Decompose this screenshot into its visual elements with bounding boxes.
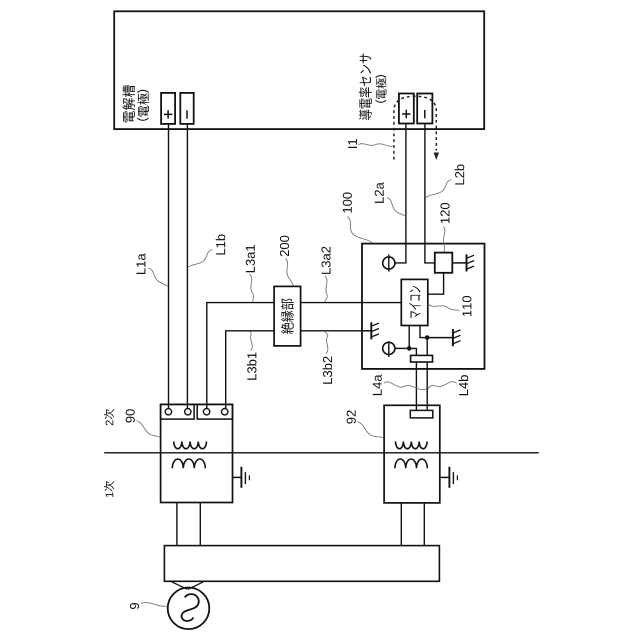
wire 120 to microcontroller [428, 273, 444, 294]
AC source circle 9 [168, 588, 210, 630]
transformer 90 box [161, 404, 233, 502]
leader L3b2 [325, 332, 328, 354]
tank label 電解槽 column [122, 85, 135, 122]
source circle (top, sensor drive) [383, 257, 395, 269]
sensor label 導電率センサ column [359, 54, 372, 120]
terminal block A of 90 [161, 404, 195, 419]
terminal block B of 90 [197, 404, 232, 419]
label 1次 (primary) [104, 481, 114, 497]
terminal circle 1 of 90 [165, 409, 171, 415]
label L4a [373, 374, 382, 395]
leader L3b1 [250, 332, 253, 351]
terminal circle 3 of 90 [203, 409, 209, 415]
leader L2b [426, 180, 452, 198]
wire microcontroller to node B [420, 326, 427, 338]
terminal block of 92 [410, 410, 433, 418]
label L2a [375, 182, 384, 203]
sine mark in AC source [182, 594, 199, 621]
wire L1a [168, 123, 170, 412]
label L2b [455, 164, 465, 184]
wire L3b1 (transformer 90 to isolation to ground in box 100) [226, 331, 372, 412]
label L3a1 [246, 245, 255, 272]
label L3a2 [321, 247, 330, 274]
terminal circle 2 of 90 [185, 409, 191, 415]
label L3b2 [323, 357, 333, 384]
ground G4 (transformer 90) [233, 467, 250, 488]
connection V from bus to source [172, 582, 204, 590]
wire transformer 92 to bus (right) [423, 503, 425, 546]
label L1b [216, 234, 226, 254]
electrode E1 (+) of tank [161, 93, 175, 124]
wire L3a1 (transformer 90 to isolation to box 100) [207, 303, 401, 412]
secondary winding of 92 [396, 442, 428, 449]
leader 100 [348, 217, 373, 244]
primary winding of 92 [395, 459, 427, 468]
leader L4a [384, 382, 427, 390]
ground G2 (end of L3b2) [362, 322, 379, 339]
label 90 [126, 409, 135, 422]
junction node B [425, 335, 430, 340]
primary winding of 90 [172, 459, 205, 468]
wire transformer 92 to bus (left) [400, 503, 402, 546]
dashed current loop I1 [394, 96, 436, 159]
wire L1b [186, 123, 188, 412]
label 100 [343, 192, 352, 212]
minus mark E2 (rotated) [186, 110, 188, 118]
isolation box 絶縁部 (200) [274, 286, 301, 346]
plus mark E1 [164, 110, 172, 118]
wire L2b [425, 123, 435, 263]
ground G1 (right of 120) [452, 254, 474, 271]
wire node A to L4a [409, 348, 416, 414]
wire microcontroller to node A [408, 326, 410, 349]
leader 90 [137, 421, 161, 438]
electrolytic tank outline [114, 11, 484, 129]
label 2次 (secondary) [104, 409, 114, 425]
plus mark E3 [402, 110, 410, 118]
leader L3a1 [250, 274, 254, 302]
label L4b [459, 375, 469, 395]
label 110 [462, 296, 471, 316]
electrode E3 (+) of sensor [399, 94, 414, 124]
wire transformer 90 to bus (left) [176, 503, 178, 546]
minus mark E4 (rotated) [424, 110, 426, 118]
wire node B down (L4b) [426, 338, 428, 414]
leader 110 [428, 304, 460, 311]
wire source to node A [395, 347, 409, 349]
label 200 [280, 236, 289, 257]
shunt resistor block [411, 355, 433, 362]
source circle (bottom, measurement) [383, 342, 395, 354]
leader 120 [443, 227, 445, 253]
power bus bar [164, 546, 439, 582]
transformer 92 box [384, 405, 440, 503]
junction node A [407, 346, 412, 351]
leader 9 [141, 603, 167, 607]
wire transformer 90 to bus (right) [199, 503, 201, 546]
electrode E4 (-) of sensor [417, 94, 432, 124]
label 92 [347, 410, 356, 423]
controller box 100 outline [362, 244, 485, 369]
label L3b1 [247, 352, 257, 379]
electrode E2 (-) of tank [180, 93, 193, 124]
leader L1b [188, 250, 213, 268]
wire L2a [395, 123, 406, 263]
leader L3a2 [325, 276, 328, 302]
component 120 square [435, 253, 453, 273]
leader 200 [286, 259, 294, 286]
dashed loop arrowhead [434, 153, 440, 161]
leader I1 [359, 144, 393, 147]
leader L2a [387, 198, 406, 217]
secondary winding of 90 [174, 442, 207, 449]
label 120 [440, 203, 449, 223]
ground G3 (node B) [427, 329, 460, 346]
tank label (電極) column [137, 90, 149, 120]
microcontroller text マイコン [409, 286, 421, 318]
ground G5 (transformer 92) [440, 467, 458, 488]
sensor label (電極) column [376, 76, 387, 103]
primary/secondary separator line [104, 452, 539, 454]
label I1 [348, 139, 357, 148]
isolation box text 絶縁部 [281, 299, 294, 334]
terminal circle 4 of 90 [222, 409, 228, 415]
leader L4b [428, 382, 457, 390]
label 9 [130, 603, 139, 609]
microcontroller box 110 [401, 279, 428, 325]
leader 92 [358, 422, 384, 438]
label L1a [136, 253, 145, 274]
leader L1a [149, 268, 169, 287]
